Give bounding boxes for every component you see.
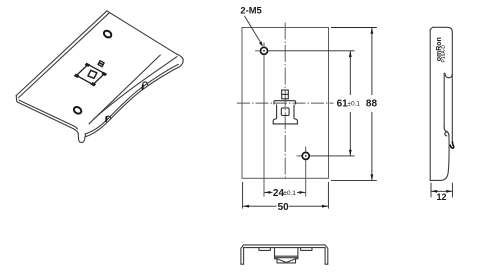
bracket square hole	[88, 70, 97, 78]
88 dim extension bottom	[331, 180, 377, 182]
iso top-right edge	[107, 11, 177, 54]
front center bracket feature	[273, 90, 297, 124]
24 dim line right seg	[297, 191, 306, 193]
bottom view tab 1	[259, 248, 271, 251]
bottom view right leg inner	[324, 248, 326, 265]
side inner notch cup	[444, 73, 452, 78]
front bottom hole M5	[302, 152, 309, 159]
bottom view leg feet	[241, 263, 328, 265]
top hole horizontal tick	[255, 50, 261, 52]
50 dim extension right	[327, 182, 329, 209]
iso face fold line	[89, 55, 160, 124]
12 dim arrow right	[446, 190, 452, 193]
vertical centerline	[284, 23, 286, 179]
svg-text:88: 88	[366, 99, 378, 110]
61 dim line	[349, 51, 351, 155]
12 dim extension left	[430, 183, 432, 198]
bottom view center box inner lines	[275, 256, 298, 258]
50 dim arrow right	[322, 205, 328, 208]
24 dim line left seg	[264, 191, 272, 193]
61 dim arrow up	[349, 51, 352, 57]
iso near-left bottom edge (double line)	[18, 102, 73, 128]
bottom hole vertical extension line	[305, 147, 307, 197]
side lower hook curl	[444, 128, 449, 135]
front top hole M5	[261, 47, 268, 54]
88 dim extension top	[331, 27, 377, 29]
bottom hole horizontal tick	[297, 155, 302, 157]
bracket ear right	[102, 73, 106, 76]
side right edge upper	[451, 32, 453, 142]
iso hole (bottom)	[73, 106, 83, 115]
side top edge with chamfer and round corner	[430, 27, 452, 32]
12 dim extension right	[451, 183, 453, 198]
svg-text:±0.1: ±0.1	[347, 100, 360, 107]
iso lance tab 2	[106, 116, 111, 120]
bottom view left leg inner	[243, 248, 245, 265]
iso strip bottom-right outer edge (double line, S-curve)	[86, 67, 181, 137]
bracket ear bottom	[91, 83, 95, 86]
bracket bottom flange	[273, 119, 297, 124]
50 dim line	[243, 205, 328, 207]
61 dim extension from top hole	[268, 50, 355, 52]
bottom view center box sides	[275, 248, 298, 259]
iso lance tab 1	[143, 82, 148, 86]
bracket small tab	[99, 61, 104, 65]
bracket top flange	[274, 101, 296, 105]
24 dim arrow right	[299, 191, 305, 194]
svg-text:50: 50	[278, 202, 290, 213]
front plate outline	[242, 28, 329, 179]
bracket ear top-left	[86, 63, 90, 66]
iso corner fold inner line	[94, 57, 177, 120]
side right edge lower curl tip	[450, 142, 454, 148]
iso hole (top)	[103, 29, 113, 38]
side lower-right edge curve	[441, 135, 449, 180]
bracket outer parallelogram	[76, 64, 104, 84]
svg-text:2-M5: 2-M5	[240, 5, 261, 16]
svg-text:P16A-D: P16A-D	[441, 45, 447, 63]
12 dim arrow left	[431, 190, 437, 193]
side inner vertical edge	[443, 73, 445, 128]
bottom view bowtie	[277, 259, 296, 263]
iso center bracket feature	[75, 61, 107, 86]
2-M5 leader line	[244, 16, 261, 44]
bracket ear left	[75, 74, 79, 77]
iso right corner curve	[177, 54, 183, 66]
bottom view outer channel outline	[241, 245, 328, 264]
2-M5 arrowhead	[259, 41, 263, 46]
svg-text:±0.1: ±0.1	[283, 190, 296, 197]
side bottom edge	[430, 179, 441, 181]
bracket inner square	[281, 108, 289, 116]
side left edge	[429, 30, 431, 181]
iso left corner edge	[16, 95, 18, 102]
iso bottom corner lip	[73, 129, 85, 143]
iso far top-left edge (double line)	[16, 11, 107, 96]
bottom view tab 2	[301, 248, 312, 251]
24 dim arrow left	[264, 191, 270, 194]
88 dim arrow down	[371, 174, 374, 180]
50 dim extension left	[242, 182, 244, 209]
horizontal centerline	[237, 102, 334, 104]
12 dim line	[431, 190, 452, 192]
61 dim arrow down	[349, 150, 352, 156]
bottom view inner band line	[244, 247, 326, 249]
61 dim extension from bottom hole	[310, 155, 355, 157]
50 dim arrow left	[243, 205, 249, 208]
88 dim line	[371, 28, 373, 180]
bracket waist sides	[277, 105, 294, 119]
top hole vertical extension line	[263, 43, 265, 197]
88 dim arrow up	[371, 28, 374, 34]
svg-text:12: 12	[437, 192, 447, 202]
bracket tab (two stacked squares)	[282, 90, 289, 99]
